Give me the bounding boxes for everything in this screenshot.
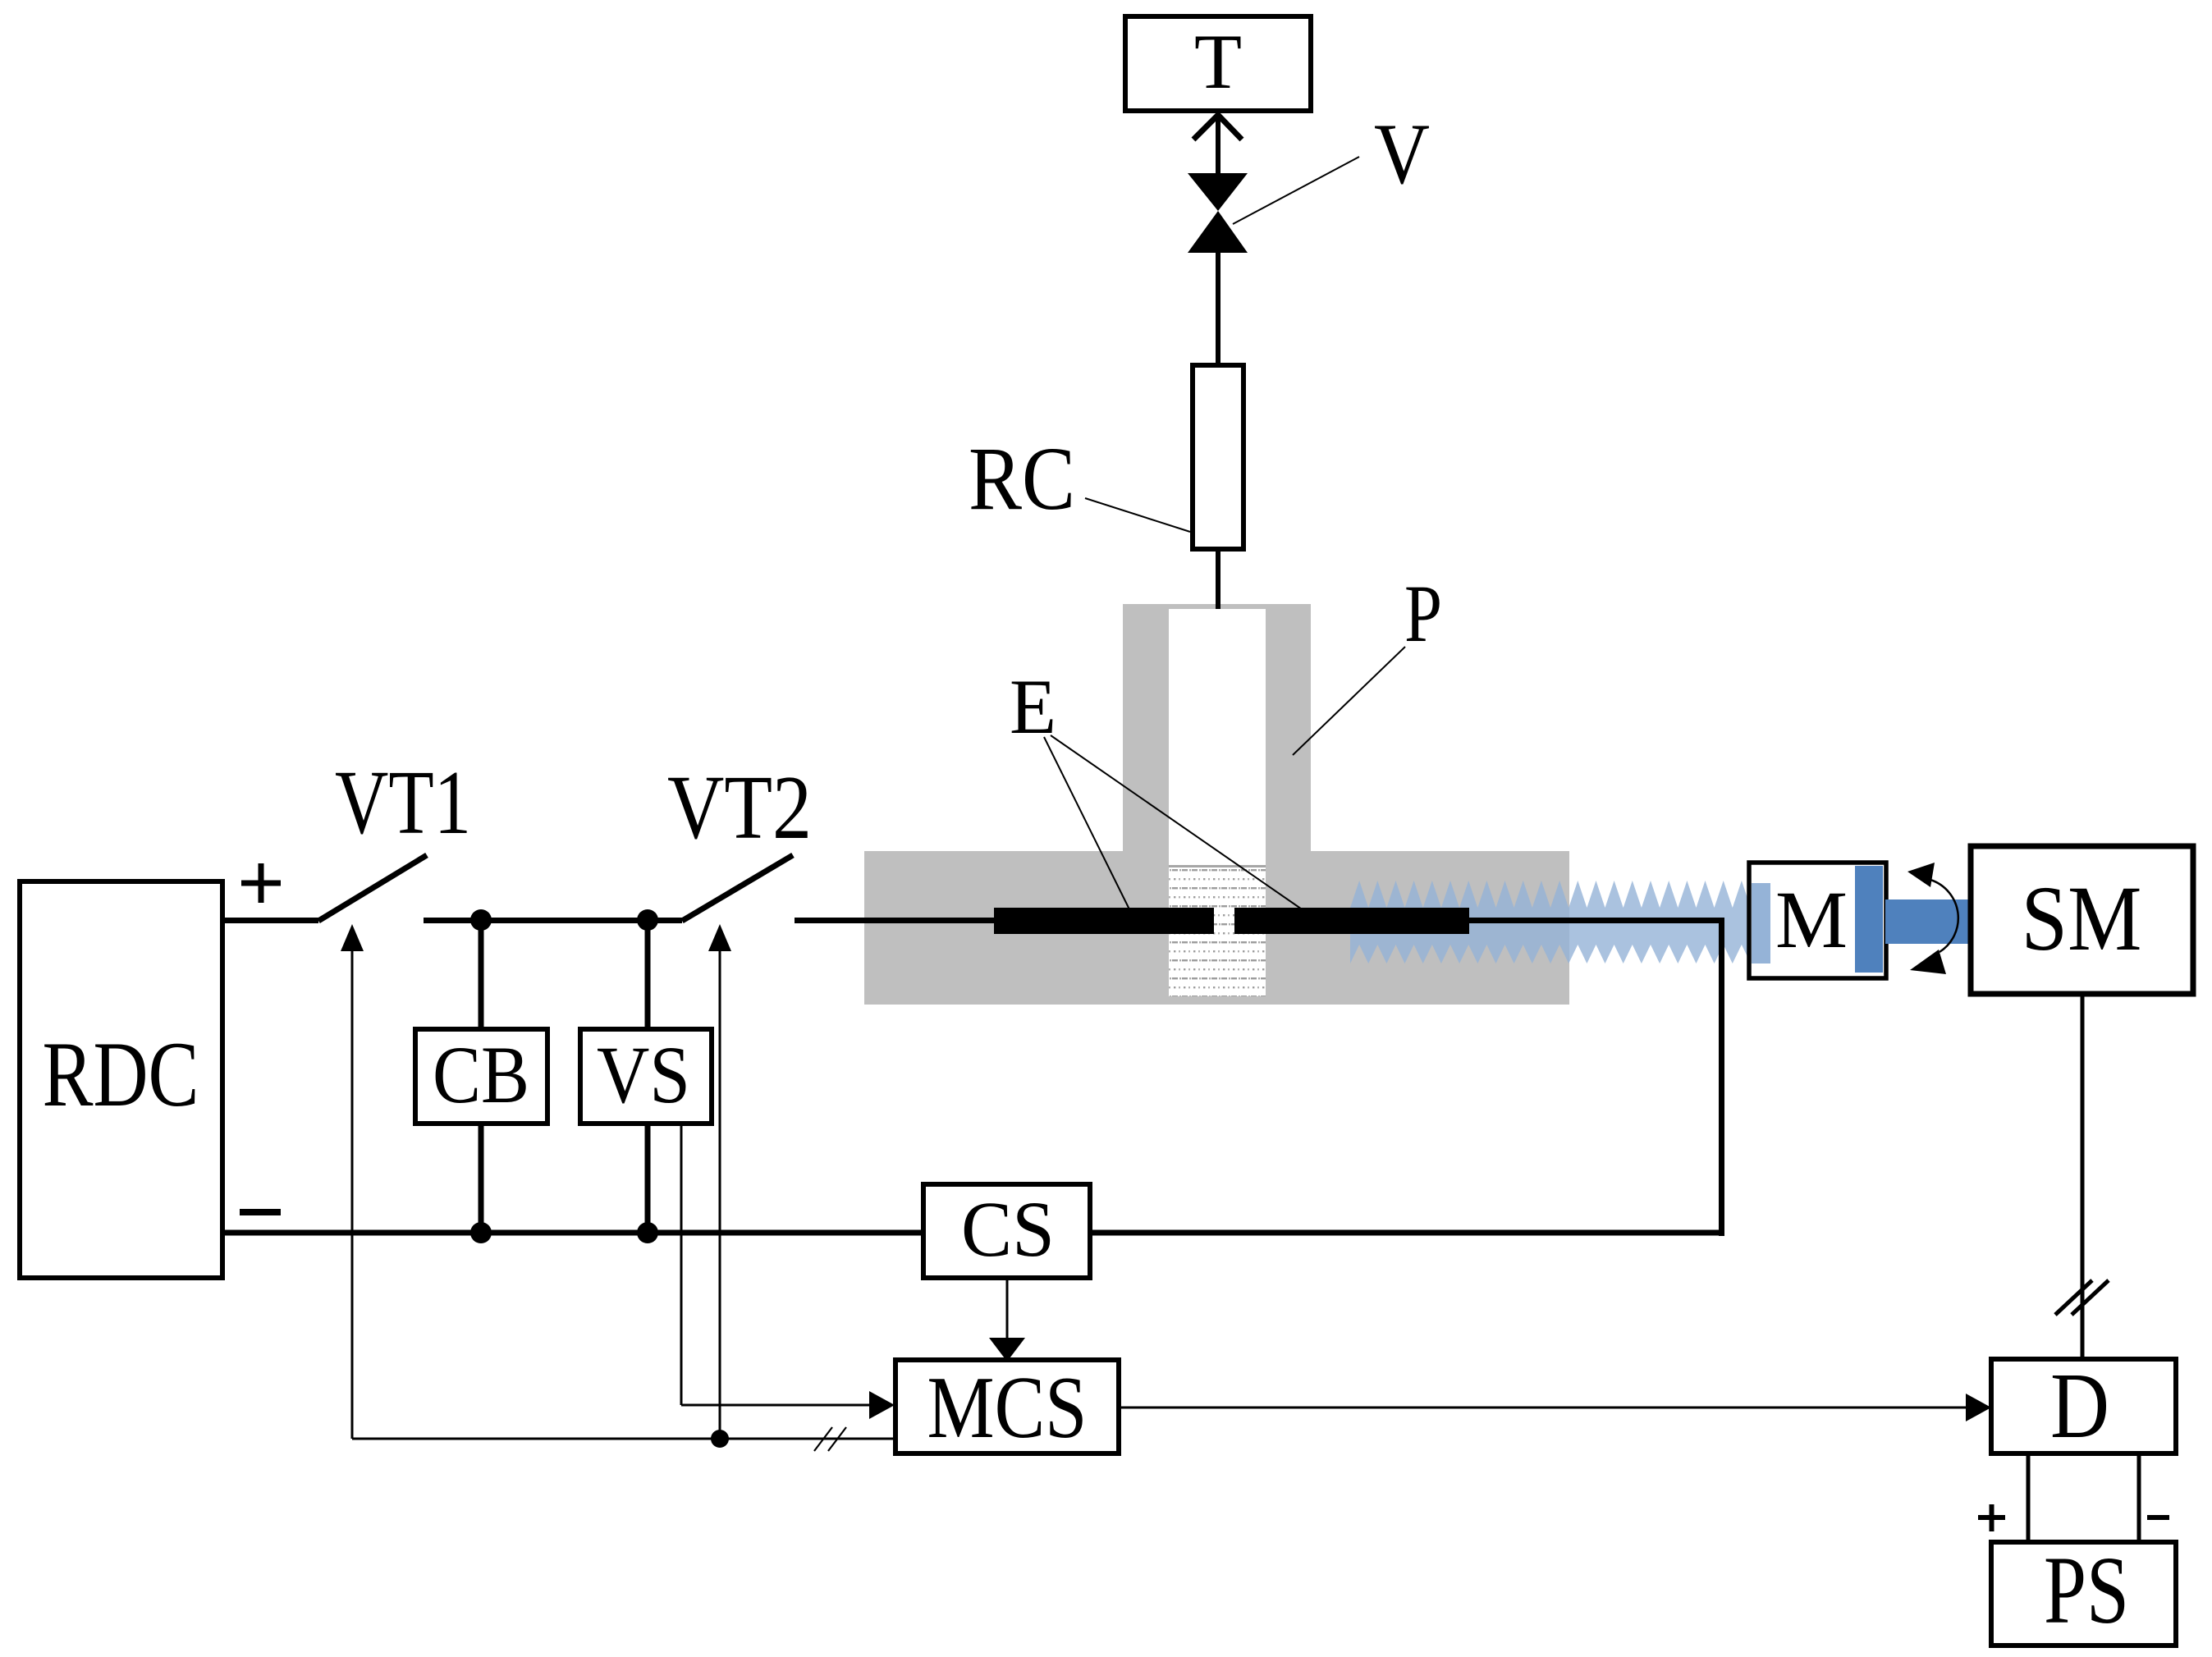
plus terminal [241, 863, 281, 903]
SM-D double slash [2055, 1280, 2109, 1315]
wire VT2 to electrode [795, 918, 994, 923]
bus wire CS to corner [1090, 1230, 1724, 1236]
minus bus wire RDC to CS [222, 1230, 923, 1236]
svg-text:RDC: RDC [43, 1023, 199, 1126]
D to PS wire right [2137, 1453, 2141, 1542]
switch VT2 blade [682, 855, 793, 921]
gate bus junction node [711, 1430, 729, 1448]
leader line V [1233, 157, 1359, 224]
electrode E right bar [1234, 908, 1469, 934]
node VS top [637, 909, 658, 931]
branch wire VS bottom [645, 1124, 651, 1233]
VS output arrowhead [869, 1391, 895, 1419]
CS output line [1006, 1278, 1009, 1339]
rotation arrow bottom [1910, 950, 1946, 974]
box CB [415, 1029, 547, 1124]
minus terminal [240, 1209, 281, 1215]
node CB top [470, 909, 492, 931]
electrode E left bar [994, 908, 1214, 934]
vessel P gray slab [864, 851, 1569, 1005]
svg-text:RC: RC [969, 428, 1075, 529]
motor shaft [1885, 899, 1970, 944]
leader line E right electrode [1051, 735, 1307, 913]
gate sense line VT1 [351, 948, 354, 1439]
box RDC [20, 881, 222, 1278]
box CS [923, 1184, 1090, 1278]
svg-text:E: E [1010, 663, 1056, 750]
MCS output arrowhead [1966, 1394, 1991, 1421]
box MCS [895, 1359, 1119, 1457]
vessel P gray column [1123, 604, 1311, 853]
tube RC [1193, 365, 1243, 549]
branch wire CB bottom [479, 1124, 484, 1233]
leader line E left electrode [1044, 737, 1130, 911]
box VS [580, 1029, 712, 1124]
threaded rod zigzag [1350, 881, 1751, 964]
wire RDC plus to VT1 [222, 918, 318, 923]
PS plus [1978, 1504, 2005, 1531]
svg-text:VT1: VT1 [335, 753, 471, 854]
PS minus [2147, 1515, 2169, 1520]
box PS [1991, 1536, 2176, 1646]
vessel P inner white channel [1169, 609, 1266, 996]
svg-text:T: T [1194, 18, 1242, 105]
SM to D line [2081, 994, 2085, 1359]
motor M left coupling bar [1752, 883, 1770, 964]
wire right electrode to corner [1469, 918, 1724, 923]
node CB bottom [470, 1222, 492, 1243]
svg-text:M: M [1775, 874, 1848, 965]
box M [1749, 863, 1886, 978]
svg-text:D: D [2050, 1353, 2109, 1458]
liquid surface line [1169, 865, 1266, 867]
gate sense arrow VT1 [341, 924, 364, 951]
svg-text:V: V [1374, 106, 1430, 202]
rotation arrow top [1907, 863, 1935, 887]
arrowhead to T [1193, 115, 1242, 140]
liquid hatch in channel [1169, 868, 1266, 996]
leader line P [1293, 647, 1405, 755]
switch VT1 blade [318, 855, 427, 921]
svg-text:PS: PS [2044, 1536, 2129, 1644]
svg-text:CB: CB [433, 1029, 529, 1120]
rotation arc [1930, 880, 1958, 952]
gate bus double slash [814, 1427, 846, 1451]
gate sense arrow VT2 [708, 924, 731, 951]
box SM [1971, 846, 2193, 994]
svg-text:MCS: MCS [927, 1359, 1088, 1457]
VS output line to MCS [681, 1404, 871, 1407]
wire valve to T [1216, 113, 1220, 176]
svg-text:VS: VS [597, 1029, 690, 1120]
svg-text:CS: CS [961, 1185, 1055, 1273]
MCS output line to D [1119, 1407, 1966, 1409]
leader line RC [1085, 498, 1190, 532]
svg-text:VT2: VT2 [667, 758, 812, 858]
gate sense line VT2 [719, 948, 721, 1439]
VS output line down [680, 1124, 683, 1405]
svg-text:P: P [1404, 568, 1442, 659]
wire VT1 to VT2 [424, 918, 682, 923]
wire valve to RC [1216, 251, 1220, 367]
D to PS wire left [2027, 1453, 2031, 1542]
branch wire CB top [479, 920, 484, 1029]
node VS bottom [637, 1222, 658, 1243]
box T [1125, 16, 1311, 111]
box D [1991, 1353, 2176, 1458]
valve V [1188, 173, 1248, 253]
CS output arrowhead [989, 1338, 1025, 1362]
gate bus line to MCS [352, 1438, 895, 1440]
wire RC to vessel [1216, 547, 1220, 609]
svg-text:SM: SM [2022, 867, 2142, 970]
branch wire VS top [645, 920, 651, 1029]
motor M rotor bar [1855, 866, 1883, 973]
wire corner down [1719, 918, 1724, 1236]
